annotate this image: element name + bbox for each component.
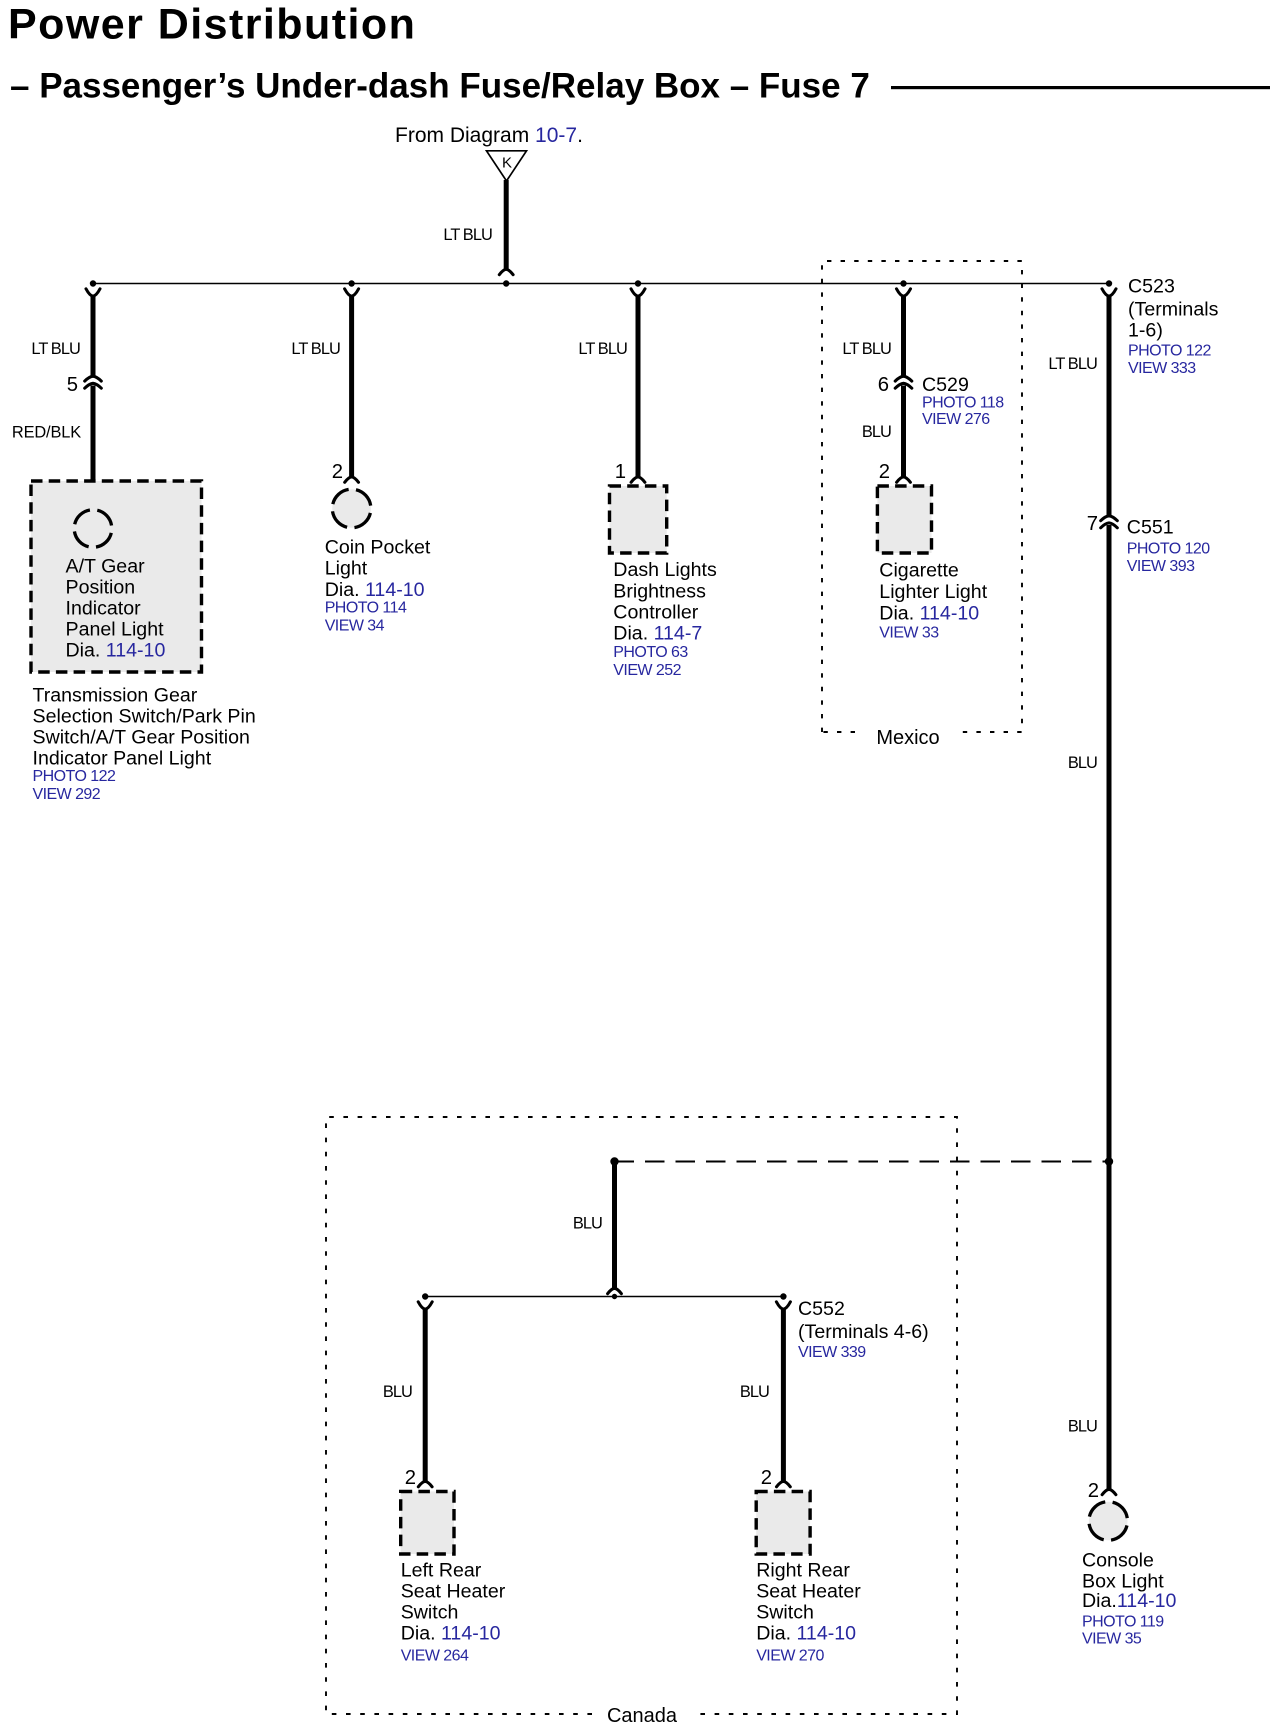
svg-text:2: 2	[405, 1467, 416, 1489]
svg-text:5: 5	[67, 374, 78, 396]
svg-text:– Passenger’s Under-dash Fuse/: – Passenger’s Under-dash Fuse/Relay Box …	[10, 66, 870, 105]
terminal cup C523	[1102, 289, 1116, 296]
junction dot feed/bus	[503, 280, 509, 286]
svg-text:Dia.114-10: Dia.114-10	[1082, 1590, 1177, 1612]
component box right rear seat heater switch	[756, 1492, 810, 1555]
junction dot bus/branch-B	[348, 280, 354, 286]
wire left-rear BLU	[423, 1309, 428, 1483]
inline connector C529 double chevron	[895, 376, 912, 388]
svg-text:PHOTO 119: PHOTO 119	[1082, 1613, 1164, 1630]
wire label LT BLU (branch A)	[31, 340, 80, 358]
svg-text:Seat Heater: Seat Heater	[401, 1581, 506, 1603]
junction dot bus/branch-D	[900, 280, 906, 286]
svg-text:VIEW 339: VIEW 339	[798, 1344, 866, 1361]
wire branch-C LT BLU	[636, 296, 641, 478]
inline connector pin 5 double chevron	[85, 376, 102, 388]
label transmission gear selection switch (below box)	[33, 685, 256, 803]
svg-text:LT BLU: LT BLU	[842, 340, 891, 358]
subtitle "Passenger's Under-dash Fuse/Relay Box - Fuse 7"	[10, 66, 870, 105]
junction dot branch-E / jumper	[1105, 1157, 1113, 1165]
lamp A/T gear position indicator panel light	[70, 506, 115, 551]
wire branch-B LT BLU	[349, 296, 354, 478]
connector chevron (feed onto bus)	[499, 269, 513, 274]
wire branch-D LT BLU segment	[901, 296, 906, 378]
label console box light	[1082, 1550, 1177, 1648]
component box left rear seat heater switch	[401, 1492, 454, 1555]
svg-text:BLU: BLU	[383, 1383, 412, 1401]
svg-text:Coin Pocket: Coin Pocket	[325, 537, 431, 559]
wire label LT BLU (branch B)	[291, 340, 340, 358]
svg-text:Brightness: Brightness	[613, 581, 706, 603]
wire branch-E LT BLU segment	[1107, 296, 1112, 518]
svg-text:Switch: Switch	[401, 1602, 459, 1624]
svg-text:PHOTO 118: PHOTO 118	[922, 395, 1004, 412]
svg-text:2: 2	[761, 1467, 772, 1489]
svg-text:7: 7	[1087, 513, 1098, 535]
svg-text:C523: C523	[1128, 275, 1175, 297]
pin 7 label	[1087, 513, 1098, 535]
svg-text:BLU: BLU	[1068, 754, 1097, 772]
svg-text:Console: Console	[1082, 1550, 1154, 1572]
pin 2 label (left rear)	[405, 1467, 416, 1489]
wire label LT BLU (branch C)	[578, 340, 627, 358]
junction dot line/right-rear (C552)	[780, 1293, 786, 1299]
svg-text:VIEW 270: VIEW 270	[756, 1647, 824, 1664]
connector chevron cigarette lighter	[897, 477, 911, 482]
component box cigarette lighter light	[877, 486, 931, 553]
header rule	[891, 86, 1270, 89]
svg-text:PHOTO 122: PHOTO 122	[33, 768, 116, 785]
label Mexico	[876, 727, 939, 749]
connector chevron right rear switch	[777, 1481, 791, 1486]
junction dot bus/branch-A	[90, 280, 96, 286]
svg-text:VIEW 292: VIEW 292	[33, 786, 101, 803]
svg-text:LT BLU: LT BLU	[443, 226, 492, 244]
svg-text:Dia. 114-10: Dia. 114-10	[879, 602, 979, 624]
svg-text:BLU: BLU	[573, 1215, 602, 1233]
wire right-rear BLU	[781, 1309, 786, 1483]
connector chevron canada feed	[608, 1288, 622, 1293]
wire label BLU (console drop)	[1068, 1418, 1097, 1436]
svg-text:2: 2	[879, 461, 890, 483]
junction dot bus/branch-C	[635, 280, 641, 286]
label connector C551	[1127, 517, 1210, 576]
svg-text:(Terminals: (Terminals	[1128, 299, 1219, 321]
component box transmission gear selection switch	[31, 481, 202, 672]
svg-text:Indicator: Indicator	[66, 598, 142, 620]
svg-text:Dia. 114-10: Dia. 114-10	[66, 640, 166, 662]
svg-text:LT BLU: LT BLU	[578, 340, 627, 358]
svg-text:BLU: BLU	[1068, 1418, 1097, 1436]
svg-text:Seat Heater: Seat Heater	[756, 1581, 861, 1603]
svg-text:(Terminals 4-6): (Terminals 4-6)	[798, 1321, 929, 1343]
connector chevron left rear switch	[418, 1481, 432, 1486]
wire label LT BLU (branch E)	[1048, 355, 1097, 373]
wire branch-E BLU long segment	[1107, 525, 1112, 1490]
svg-text:2: 2	[1088, 1480, 1099, 1502]
svg-text:VIEW 252: VIEW 252	[613, 662, 681, 679]
lamp coin pocket light	[328, 485, 374, 531]
svg-text:VIEW 264: VIEW 264	[401, 1647, 469, 1664]
svg-text:Dia. 114-10: Dia. 114-10	[756, 1622, 856, 1644]
svg-text:C552: C552	[798, 1298, 845, 1320]
wire canada feed BLU	[612, 1162, 617, 1289]
svg-text:LT BLU: LT BLU	[291, 340, 340, 358]
svg-text:LT BLU: LT BLU	[31, 340, 80, 358]
label From Diagram 10-7	[395, 124, 583, 147]
wire label BLU (right rear)	[740, 1383, 769, 1401]
wire label BLU (left rear)	[383, 1383, 412, 1401]
svg-text:Controller: Controller	[613, 602, 698, 624]
label dash lights brightness controller	[613, 559, 717, 679]
junction dot line/left-rear	[422, 1293, 428, 1299]
wire branch-A RED/BLK segment	[91, 386, 96, 511]
connector chevron coin pocket	[345, 477, 359, 482]
terminal cup branch-D	[897, 289, 911, 296]
svg-text:1: 1	[615, 461, 626, 483]
label Canada	[607, 1705, 678, 1727]
svg-text:Right Rear: Right Rear	[756, 1560, 850, 1582]
svg-text:PHOTO 120: PHOTO 120	[1127, 541, 1210, 558]
svg-text:Left Rear: Left Rear	[401, 1560, 482, 1582]
lamp console box light	[1085, 1498, 1131, 1544]
wire label BLU (canada feed)	[573, 1215, 602, 1233]
svg-text:Selection Switch/Park Pin: Selection Switch/Park Pin	[33, 706, 256, 728]
inline connector C551 double chevron	[1101, 516, 1118, 528]
junction dot canada node	[610, 1157, 618, 1165]
title "Power Distribution"	[8, 1, 416, 49]
wire branch-A LT BLU segment	[91, 296, 96, 378]
svg-text:PHOTO 63: PHOTO 63	[613, 644, 688, 661]
label connector C529	[922, 374, 1004, 428]
junction dot canada feed/line	[612, 1294, 617, 1299]
svg-text:1-6): 1-6)	[1128, 320, 1163, 342]
connector chevron dash controller	[631, 477, 645, 482]
svg-text:Mexico: Mexico	[876, 727, 939, 749]
wire branch-D BLU segment	[901, 386, 906, 478]
svg-text:C529: C529	[922, 374, 969, 396]
canada distribution line	[425, 1296, 783, 1298]
pin 2 label (cigarette lighter)	[879, 461, 890, 483]
svg-text:VIEW 34: VIEW 34	[325, 618, 385, 635]
terminal cup right-rear C552	[776, 1302, 790, 1309]
svg-text:Dia. 114-10: Dia. 114-10	[325, 579, 425, 601]
svg-text:Cigarette: Cigarette	[879, 560, 959, 582]
svg-text:A/T Gear: A/T Gear	[66, 556, 146, 578]
svg-text:Canada: Canada	[607, 1705, 678, 1727]
svg-text:Dash Lights: Dash Lights	[613, 559, 717, 581]
label right rear seat heater switch	[756, 1560, 861, 1665]
group box Mexico (dashed)	[822, 261, 1022, 732]
terminal cup branch-A	[86, 289, 100, 296]
junction dot bus/C523	[1106, 280, 1112, 286]
label A/T gear panel light (in box)	[66, 556, 166, 662]
terminal cup branch-C	[631, 289, 645, 296]
label coin pocket light	[325, 537, 431, 635]
pin 5 label	[67, 374, 78, 396]
svg-text:From Diagram 10-7.: From Diagram 10-7.	[395, 124, 583, 147]
wire label LT BLU (feed)	[443, 226, 492, 244]
pin 6 label	[878, 374, 889, 396]
connector K from-diagram triangle	[487, 151, 527, 181]
svg-text:RED/BLK: RED/BLK	[12, 423, 81, 441]
svg-text:Dia. 114-7: Dia. 114-7	[613, 623, 702, 645]
label left rear seat heater switch	[401, 1560, 506, 1665]
svg-text:C551: C551	[1127, 517, 1174, 539]
svg-text:Dia. 114-10: Dia. 114-10	[401, 1622, 501, 1644]
svg-text:LT BLU: LT BLU	[1048, 355, 1097, 373]
svg-text:Panel Light: Panel Light	[66, 619, 165, 641]
terminal cup left-rear	[418, 1302, 432, 1309]
wire label LT BLU (branch D)	[842, 340, 891, 358]
label connector C552	[798, 1298, 929, 1361]
svg-text:Light: Light	[325, 558, 368, 580]
bus wire fuse 7 output	[93, 283, 1109, 285]
svg-text:VIEW 276: VIEW 276	[922, 411, 990, 428]
svg-text:Position: Position	[66, 577, 136, 599]
svg-text:Indicator Panel Light: Indicator Panel Light	[33, 748, 212, 770]
label connector C523	[1128, 275, 1219, 377]
pin 1 label (dash controller)	[615, 461, 626, 483]
jumper dashed wire to canada node	[615, 1161, 1110, 1163]
wire label BLU (branch D)	[862, 423, 891, 441]
svg-text:K: K	[502, 155, 512, 172]
svg-text:6: 6	[878, 374, 889, 396]
svg-text:Switch: Switch	[756, 1602, 814, 1624]
pin 2 label (console box light)	[1088, 1480, 1099, 1502]
svg-text:VIEW 33: VIEW 33	[879, 625, 939, 642]
pin 2 label (coin pocket)	[332, 461, 343, 483]
label cigarette lighter light	[879, 560, 987, 642]
connector chevron console box light	[1102, 1489, 1116, 1494]
svg-text:VIEW 393: VIEW 393	[1127, 558, 1195, 575]
pin 2 label (right rear)	[761, 1467, 772, 1489]
svg-text:PHOTO 114: PHOTO 114	[325, 600, 407, 617]
svg-text:Lighter Light: Lighter Light	[879, 581, 987, 603]
svg-text:PHOTO 122: PHOTO 122	[1128, 343, 1211, 360]
svg-text:VIEW 333: VIEW 333	[1128, 360, 1196, 377]
svg-text:BLU: BLU	[862, 423, 891, 441]
svg-text:2: 2	[332, 461, 343, 483]
wire feed LT BLU vertical	[504, 180, 509, 270]
svg-text:BLU: BLU	[740, 1383, 769, 1401]
wire label RED/BLK	[12, 423, 81, 441]
svg-text:Switch/A/T Gear Position: Switch/A/T Gear Position	[33, 727, 250, 749]
component box dash lights brightness controller	[610, 486, 667, 553]
svg-text:Transmission Gear: Transmission Gear	[33, 685, 198, 707]
wire label BLU (branch E upper)	[1068, 754, 1097, 772]
svg-text:Power Distribution: Power Distribution	[8, 1, 416, 49]
svg-text:VIEW 35: VIEW 35	[1082, 1631, 1142, 1648]
terminal cup branch-B	[345, 289, 359, 296]
group box Canada (dashed)	[326, 1117, 957, 1714]
